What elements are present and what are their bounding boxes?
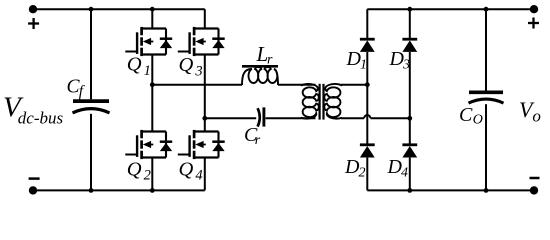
svg-text:Q: Q [127, 159, 142, 181]
svg-text:r: r [255, 133, 261, 148]
svg-text:r: r [267, 53, 273, 68]
svg-text:dc-bus: dc-bus [18, 109, 64, 128]
svg-text:C: C [459, 104, 473, 126]
svg-text:Q: Q [179, 54, 194, 76]
svg-text:4: 4 [401, 166, 408, 181]
svg-text:1: 1 [360, 58, 367, 73]
svg-text:Q: Q [127, 54, 142, 76]
svg-text:O: O [473, 113, 483, 128]
svg-text:4: 4 [195, 168, 202, 184]
svg-text:Q: Q [179, 159, 194, 181]
svg-text:o: o [532, 107, 541, 126]
svg-text:2: 2 [144, 168, 151, 184]
svg-text:3: 3 [402, 58, 410, 73]
svg-text:f: f [79, 83, 86, 100]
svg-text:3: 3 [194, 64, 202, 80]
svg-text:1: 1 [144, 63, 151, 79]
svg-text:2: 2 [359, 166, 366, 181]
